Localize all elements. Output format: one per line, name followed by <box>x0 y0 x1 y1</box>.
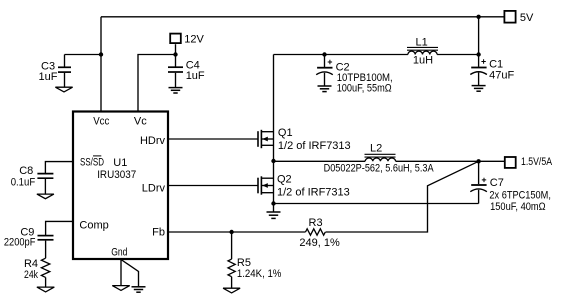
capacitor C4 1uF <box>168 55 205 88</box>
svg-text:D05022P-562, 5.6uH, 5.3A: D05022P-562, 5.6uH, 5.3A <box>324 163 435 175</box>
inductor L1 1uH <box>407 37 438 67</box>
ground Q2 source (power earth) <box>267 204 281 219</box>
capacitor C9 2200pF <box>4 226 54 258</box>
svg-text:Q2: Q2 <box>277 174 292 186</box>
wire output node to terminal <box>479 160 504 162</box>
node C2 <box>322 52 326 56</box>
svg-text:249, 1%: 249, 1% <box>299 237 340 249</box>
IC U1 IRU3037 <box>73 112 168 260</box>
svg-text:1.24K, 1%: 1.24K, 1% <box>237 268 282 280</box>
svg-text:24k: 24k <box>24 269 38 281</box>
wire switch node to L2 <box>274 160 366 162</box>
node 5V rail to output filter <box>476 15 480 19</box>
inductor L2 D05022P-562 <box>324 143 435 175</box>
resistor R5 1.24K 1% <box>228 232 282 288</box>
capacitor C8 0.1uF <box>11 165 54 194</box>
resistor R3 249 1% <box>299 217 340 249</box>
transistor Q1 1/2 of IRF7313 <box>258 127 351 152</box>
svg-text:L2: L2 <box>370 143 382 155</box>
transistor Q2 1/2 of IRF7313 <box>258 174 350 199</box>
svg-text:1uF: 1uF <box>186 70 205 82</box>
wire L2 to output node <box>396 160 479 162</box>
svg-text:47uF: 47uF <box>489 69 514 81</box>
wire Fb pin to R3 <box>168 231 306 233</box>
node Fb / R5 <box>229 230 233 234</box>
svg-text:Vc: Vc <box>134 116 147 128</box>
svg-text:Fb: Fb <box>152 227 165 239</box>
svg-text:HDrv: HDrv <box>140 135 166 147</box>
svg-text:2x 6TPC150M,: 2x 6TPC150M, <box>489 189 551 201</box>
svg-text:1/2 of IRF7313: 1/2 of IRF7313 <box>277 186 350 198</box>
svg-text:IRU3037: IRU3037 <box>97 169 136 181</box>
terminal 1.5V/5A <box>505 156 553 168</box>
wire input filter node (C2 / L1) <box>274 54 408 56</box>
terminal 5V <box>504 11 534 24</box>
svg-text:SS/SD: SS/SD <box>80 156 104 168</box>
svg-text:LDrv: LDrv <box>142 183 166 195</box>
ground C2 (power earth) <box>318 86 332 92</box>
svg-text:R3: R3 <box>309 217 323 229</box>
svg-text:1uF: 1uF <box>39 71 58 83</box>
node Vcc / C3 <box>99 52 103 56</box>
wire Vc pin to 12V node <box>138 55 176 112</box>
svg-text:0.1uF: 0.1uF <box>11 176 36 188</box>
terminal 12V <box>170 34 204 46</box>
wire L1 to C1 node <box>437 54 479 56</box>
svg-text:Vcc: Vcc <box>93 116 110 128</box>
svg-text:2200pF: 2200pF <box>4 237 36 249</box>
capacitor C2 10TPB100M <box>316 55 393 95</box>
svg-text:1/2 of IRF7313: 1/2 of IRF7313 <box>278 140 351 152</box>
svg-text:150uF, 40mΩ: 150uF, 40mΩ <box>490 201 545 213</box>
wire Vcc vertical from rail to U1 <box>100 17 102 111</box>
ground C4 (power earth) <box>169 88 183 93</box>
svg-text:Gnd: Gnd <box>111 246 127 258</box>
svg-text:Q1: Q1 <box>278 127 293 139</box>
wire SS/SD pin to C8 <box>45 162 73 173</box>
svg-text:12V: 12V <box>184 34 204 46</box>
capacitor C1 47uF <box>470 55 514 86</box>
capacitor C7 2x 6TPC150M <box>470 161 551 213</box>
node 12V / C4 / Vc <box>173 52 177 56</box>
node C1 / 5V drop <box>476 52 480 56</box>
ground Gnd pin (power earth) <box>132 287 146 292</box>
wire Comp pin to C9 <box>46 221 73 235</box>
ground C8 (signal triangle) <box>37 194 54 199</box>
svg-text:1uH: 1uH <box>413 55 433 67</box>
ground R4 (signal triangle) <box>37 287 54 292</box>
ground C3 (signal triangle) <box>55 87 72 92</box>
svg-text:C7: C7 <box>490 177 504 189</box>
wire LDrv to Q2 gate <box>168 185 258 187</box>
node switch node Q1 source / Q2 drain / L2 <box>271 159 275 163</box>
wire Gnd pin diagonal to power ground <box>121 260 139 287</box>
node Q2 source / power ground rail <box>271 201 275 205</box>
svg-text:C8: C8 <box>19 165 33 177</box>
wire 5V rail drop to L1/C1 node <box>478 17 480 55</box>
wire HDrv to Q1 gate <box>168 138 258 140</box>
wire input node through Q1/Q2 verticals <box>273 55 275 204</box>
wire 12V stem <box>175 44 177 54</box>
resistor R4 24k <box>24 258 50 287</box>
svg-text:Comp: Comp <box>79 219 108 231</box>
ground R5 (signal triangle) <box>223 288 240 293</box>
svg-text:1.5V/5A: 1.5V/5A <box>521 156 553 168</box>
wire R3 to output node (feedback) <box>326 161 479 232</box>
ground Gnd pin (signal triangle) <box>112 286 129 291</box>
svg-text:U1: U1 <box>113 157 127 169</box>
wire 5V top rail <box>101 16 504 18</box>
wire Gnd pin down <box>120 260 122 286</box>
svg-text:100uF, 55mΩ: 100uF, 55mΩ <box>337 83 392 95</box>
svg-text:5V: 5V <box>520 12 534 24</box>
ground C1 (power earth) <box>472 86 486 92</box>
wire power ground rail to C7 <box>274 203 479 205</box>
node output 1.5V <box>476 159 480 163</box>
wire C3 to Vcc node <box>65 54 102 56</box>
capacitor C3 1uF <box>39 55 72 88</box>
svg-text:L1: L1 <box>416 37 428 49</box>
